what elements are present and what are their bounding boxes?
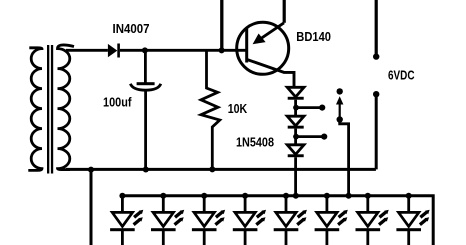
wire capacitor top lead [144, 50, 147, 82]
junction node switch to LED rail [346, 193, 352, 199]
LED8 [396, 193, 429, 245]
transformer T1 core [47, 45, 53, 174]
svg-text:IN4007: IN4007 [113, 21, 150, 36]
svg-text:BD140: BD140 [296, 29, 331, 44]
switch SW1 arm arrow [336, 96, 343, 119]
transistor Q1 base bar [245, 29, 248, 63]
junction node rail left drop [88, 167, 94, 173]
wire battery bottom to rail [375, 94, 378, 169]
transistor Q1 emitter wire [283, 0, 286, 23]
capacitor C1 100uf curved plate [130, 84, 160, 90]
diode D2 1N5408 [287, 87, 304, 99]
transistor Q1 collector [247, 60, 294, 89]
wire capacitor bottom lead [144, 91, 147, 170]
battery terminal top [373, 53, 379, 59]
svg-text:10K: 10K [228, 101, 248, 116]
wire negative rail [66, 168, 376, 171]
svg-text:1N5408: 1N5408 [236, 135, 274, 150]
battery terminal bottom [373, 91, 379, 97]
wire D3 to D4 [294, 129, 297, 145]
switch contact tap2 [321, 134, 327, 140]
battery supply top wire [375, 0, 378, 55]
junction node capacitor top [142, 47, 148, 53]
wire switch pole to LED rail [340, 120, 349, 196]
junction node base wire [219, 47, 225, 53]
junction node tap2 left [293, 134, 299, 140]
svg-text:100uf: 100uf [103, 94, 132, 109]
LED1 [110, 193, 143, 245]
switch SW1 top contact [337, 88, 343, 94]
junction node capacitor bottom [143, 167, 149, 173]
transformer T1 primary winding [28, 48, 42, 171]
LED4 [233, 193, 266, 245]
LED3 [192, 193, 225, 245]
LED5 [274, 193, 307, 245]
wire tap2 [296, 135, 324, 138]
svg-text:6VDC: 6VDC [388, 68, 415, 83]
wire diode to base junction [120, 49, 247, 52]
junction node tap1 left [293, 105, 299, 111]
wire tap1 [296, 106, 322, 109]
diode D4 1N5408 [287, 145, 304, 157]
junction node resistor bottom [209, 166, 215, 172]
wire top vertical to base junction [220, 0, 223, 50]
resistor R1 10K [201, 50, 220, 169]
transformer T1 secondary winding [58, 45, 75, 170]
transistor Q1 BD140 body [237, 22, 289, 74]
wire D4 to LED rail [294, 157, 297, 196]
switch SW1 pole [337, 116, 343, 122]
wire LED anode rail [121, 196, 433, 245]
LED2 [151, 193, 184, 245]
capacitor C1 100uf top plate [137, 82, 155, 85]
LED7 [356, 193, 389, 245]
switch contact tap1 [319, 105, 325, 111]
wire D2 to D3 [294, 100, 297, 117]
diode D3 1N5408 [287, 116, 304, 128]
transistor Q1 emitter with arrow [253, 23, 284, 44]
junction node diode chain to LED rail [293, 193, 299, 199]
diode D1 IN4007 [108, 44, 120, 58]
LED6 [315, 193, 348, 245]
wire left drop [90, 170, 93, 245]
wire secondary top to diode [66, 49, 108, 52]
